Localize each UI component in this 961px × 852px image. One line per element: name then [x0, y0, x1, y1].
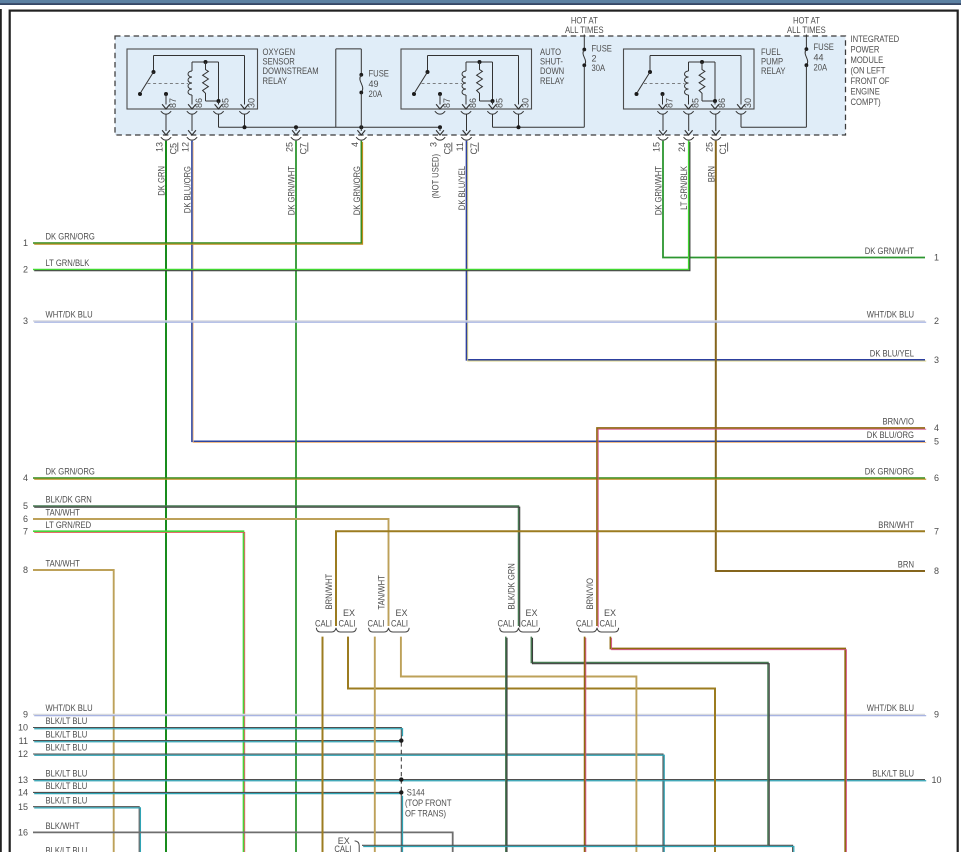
svg-text:DOWN: DOWN — [540, 66, 564, 76]
svg-text:3: 3 — [934, 355, 939, 365]
svg-text:CALI: CALI — [521, 619, 538, 629]
svg-text:RELAY: RELAY — [263, 76, 288, 86]
svg-text:OF TRANS): OF TRANS) — [405, 809, 446, 819]
svg-text:87: 87 — [168, 98, 178, 108]
svg-text:30A: 30A — [592, 63, 606, 73]
svg-text:4: 4 — [934, 423, 939, 433]
svg-text:7: 7 — [23, 526, 28, 536]
svg-text:DK GRN/WHT: DK GRN/WHT — [654, 166, 664, 216]
svg-text:SHUT-: SHUT- — [540, 57, 563, 67]
svg-text:20A: 20A — [369, 89, 383, 99]
svg-text:85: 85 — [221, 98, 231, 108]
svg-text:FUSE: FUSE — [814, 42, 834, 52]
svg-text:14: 14 — [18, 788, 28, 798]
svg-text:86: 86 — [468, 98, 478, 108]
svg-text:(NOT USED): (NOT USED) — [431, 154, 441, 199]
svg-text:25: 25 — [285, 142, 295, 152]
svg-text:POWER: POWER — [851, 44, 880, 54]
svg-text:AUTO: AUTO — [540, 47, 561, 57]
svg-text:LT GRN/BLK: LT GRN/BLK — [679, 166, 689, 210]
svg-text:3: 3 — [23, 316, 28, 326]
svg-text:CALI: CALI — [600, 619, 617, 629]
svg-text:CALI: CALI — [498, 619, 515, 629]
svg-text:EX: EX — [343, 608, 355, 618]
svg-text:9: 9 — [23, 710, 28, 720]
svg-text:BRN/VIO: BRN/VIO — [585, 578, 595, 610]
svg-text:COMPT): COMPT) — [851, 97, 881, 107]
svg-text:EX: EX — [604, 608, 616, 618]
svg-text:DK GRN/WHT: DK GRN/WHT — [287, 166, 297, 216]
svg-text:WHT/DK BLU: WHT/DK BLU — [46, 310, 93, 320]
svg-text:2: 2 — [23, 265, 28, 275]
svg-text:BLK/LT BLU: BLK/LT BLU — [46, 743, 88, 753]
svg-text:DK BLU/ORG: DK BLU/ORG — [183, 166, 193, 213]
svg-text:C7: C7 — [298, 143, 308, 155]
svg-text:DK GRN/ORG: DK GRN/ORG — [46, 467, 95, 477]
svg-text:86: 86 — [717, 98, 727, 108]
svg-text:DK GRN/ORG: DK GRN/ORG — [46, 232, 95, 242]
svg-text:2: 2 — [592, 53, 597, 63]
svg-text:(ON LEFT: (ON LEFT — [851, 65, 886, 75]
svg-text:85: 85 — [495, 98, 505, 108]
svg-text:13: 13 — [18, 775, 28, 785]
svg-text:CALI: CALI — [315, 619, 332, 629]
svg-text:TAN/WHT: TAN/WHT — [377, 575, 387, 610]
svg-text:RELAY: RELAY — [540, 76, 565, 86]
svg-text:DK GRN/ORG: DK GRN/ORG — [865, 467, 914, 477]
svg-text:CALI: CALI — [368, 619, 385, 629]
svg-text:15: 15 — [18, 802, 28, 812]
svg-text:C8: C8 — [442, 143, 452, 155]
svg-text:SENSOR: SENSOR — [263, 57, 296, 67]
svg-text:86: 86 — [194, 98, 204, 108]
svg-text:30: 30 — [743, 98, 753, 108]
svg-text:10: 10 — [18, 723, 28, 733]
svg-text:1: 1 — [934, 253, 939, 263]
svg-text:13: 13 — [155, 142, 165, 152]
svg-text:BLK/LT BLU: BLK/LT BLU — [872, 768, 914, 778]
svg-text:BRN/WHT: BRN/WHT — [324, 573, 334, 609]
svg-text:BLK/LT BLU: BLK/LT BLU — [46, 768, 88, 778]
svg-text:CALI: CALI — [391, 619, 408, 629]
svg-text:12: 12 — [18, 749, 28, 759]
svg-text:7: 7 — [934, 526, 939, 536]
svg-text:30: 30 — [247, 98, 257, 108]
svg-text:FUSE: FUSE — [592, 44, 612, 54]
svg-text:C5: C5 — [168, 143, 178, 155]
svg-text:WHT/DK BLU: WHT/DK BLU — [867, 703, 914, 713]
svg-text:CALI: CALI — [334, 844, 351, 852]
svg-text:WHT/DK BLU: WHT/DK BLU — [46, 703, 93, 713]
svg-text:DOWNSTREAM: DOWNSTREAM — [263, 66, 319, 76]
svg-text:(TOP FRONT: (TOP FRONT — [405, 798, 452, 808]
svg-text:87: 87 — [442, 98, 452, 108]
svg-text:8: 8 — [23, 565, 28, 575]
svg-text:FUEL: FUEL — [761, 47, 781, 57]
svg-text:87: 87 — [665, 98, 675, 108]
svg-text:5: 5 — [23, 501, 28, 511]
svg-text:16: 16 — [18, 828, 28, 838]
svg-text:FRONT OF: FRONT OF — [851, 76, 890, 86]
svg-text:BRN/WHT: BRN/WHT — [878, 520, 914, 530]
svg-text:DK BLU/YEL: DK BLU/YEL — [870, 349, 914, 359]
svg-text:30: 30 — [521, 98, 531, 108]
svg-text:EX: EX — [396, 608, 408, 618]
svg-text:BRN/VIO: BRN/VIO — [883, 417, 915, 427]
svg-text:OXYGEN: OXYGEN — [263, 47, 296, 57]
svg-text:WHT/DK BLU: WHT/DK BLU — [867, 310, 914, 320]
svg-text:DK BLU/ORG: DK BLU/ORG — [867, 430, 914, 440]
svg-text:6: 6 — [23, 514, 28, 524]
svg-text:C7: C7 — [469, 143, 479, 155]
svg-text:FUSE: FUSE — [369, 69, 389, 79]
svg-text:C1: C1 — [718, 143, 728, 155]
svg-text:11: 11 — [19, 736, 28, 746]
svg-text:LT GRN/BLK: LT GRN/BLK — [46, 258, 90, 268]
svg-text:ALL TIMES: ALL TIMES — [787, 25, 826, 35]
svg-text:DK GRN/WHT: DK GRN/WHT — [865, 246, 915, 256]
svg-text:ALL TIMES: ALL TIMES — [565, 25, 604, 35]
svg-text:LT GRN/RED: LT GRN/RED — [46, 520, 92, 530]
svg-text:BLK/WHT: BLK/WHT — [46, 821, 80, 831]
svg-text:1: 1 — [23, 238, 28, 248]
svg-text:5: 5 — [934, 437, 939, 447]
svg-text:INTEGRATED: INTEGRATED — [851, 34, 900, 44]
svg-text:44: 44 — [814, 52, 824, 62]
svg-text:24: 24 — [677, 142, 687, 152]
svg-text:3: 3 — [429, 142, 439, 147]
svg-text:BLK/LT BLU: BLK/LT BLU — [46, 846, 88, 852]
svg-text:CALI: CALI — [576, 619, 593, 629]
svg-text:ENGINE: ENGINE — [851, 86, 880, 96]
svg-text:BLK/DK GRN: BLK/DK GRN — [507, 563, 517, 609]
svg-text:EX: EX — [526, 608, 538, 618]
svg-text:HOT AT: HOT AT — [571, 16, 598, 26]
svg-text:6: 6 — [934, 473, 939, 483]
svg-text:DK BLU/YEL: DK BLU/YEL — [457, 166, 467, 210]
svg-text:15: 15 — [652, 142, 662, 152]
svg-text:HOT AT: HOT AT — [793, 16, 820, 26]
svg-text:4: 4 — [350, 142, 360, 147]
svg-text:BLK/LT BLU: BLK/LT BLU — [46, 716, 88, 726]
svg-text:MODULE: MODULE — [851, 55, 884, 65]
svg-text:9: 9 — [934, 710, 939, 720]
svg-text:RELAY: RELAY — [761, 66, 786, 76]
svg-text:S144: S144 — [407, 787, 425, 797]
svg-text:BLK/LT BLU: BLK/LT BLU — [46, 795, 88, 805]
svg-text:DK GRN/ORG: DK GRN/ORG — [352, 166, 362, 215]
svg-text:10: 10 — [931, 775, 941, 785]
svg-text:49: 49 — [369, 79, 379, 89]
svg-text:BLK/LT BLU: BLK/LT BLU — [46, 729, 88, 739]
svg-text:20A: 20A — [814, 63, 828, 73]
svg-text:4: 4 — [23, 473, 28, 483]
svg-text:BLK/LT BLU: BLK/LT BLU — [46, 781, 88, 791]
svg-text:85: 85 — [691, 98, 701, 108]
svg-text:25: 25 — [704, 142, 714, 152]
svg-text:12: 12 — [181, 142, 191, 152]
svg-text:BRN: BRN — [898, 560, 914, 570]
svg-text:BLK/DK GRN: BLK/DK GRN — [46, 495, 92, 505]
svg-text:11: 11 — [455, 142, 465, 151]
svg-text:CALI: CALI — [339, 619, 356, 629]
svg-text:8: 8 — [934, 566, 939, 576]
svg-text:TAN/WHT: TAN/WHT — [46, 559, 81, 569]
svg-text:TAN/WHT: TAN/WHT — [46, 508, 81, 518]
svg-text:2: 2 — [934, 316, 939, 326]
svg-text:PUMP: PUMP — [761, 57, 783, 67]
